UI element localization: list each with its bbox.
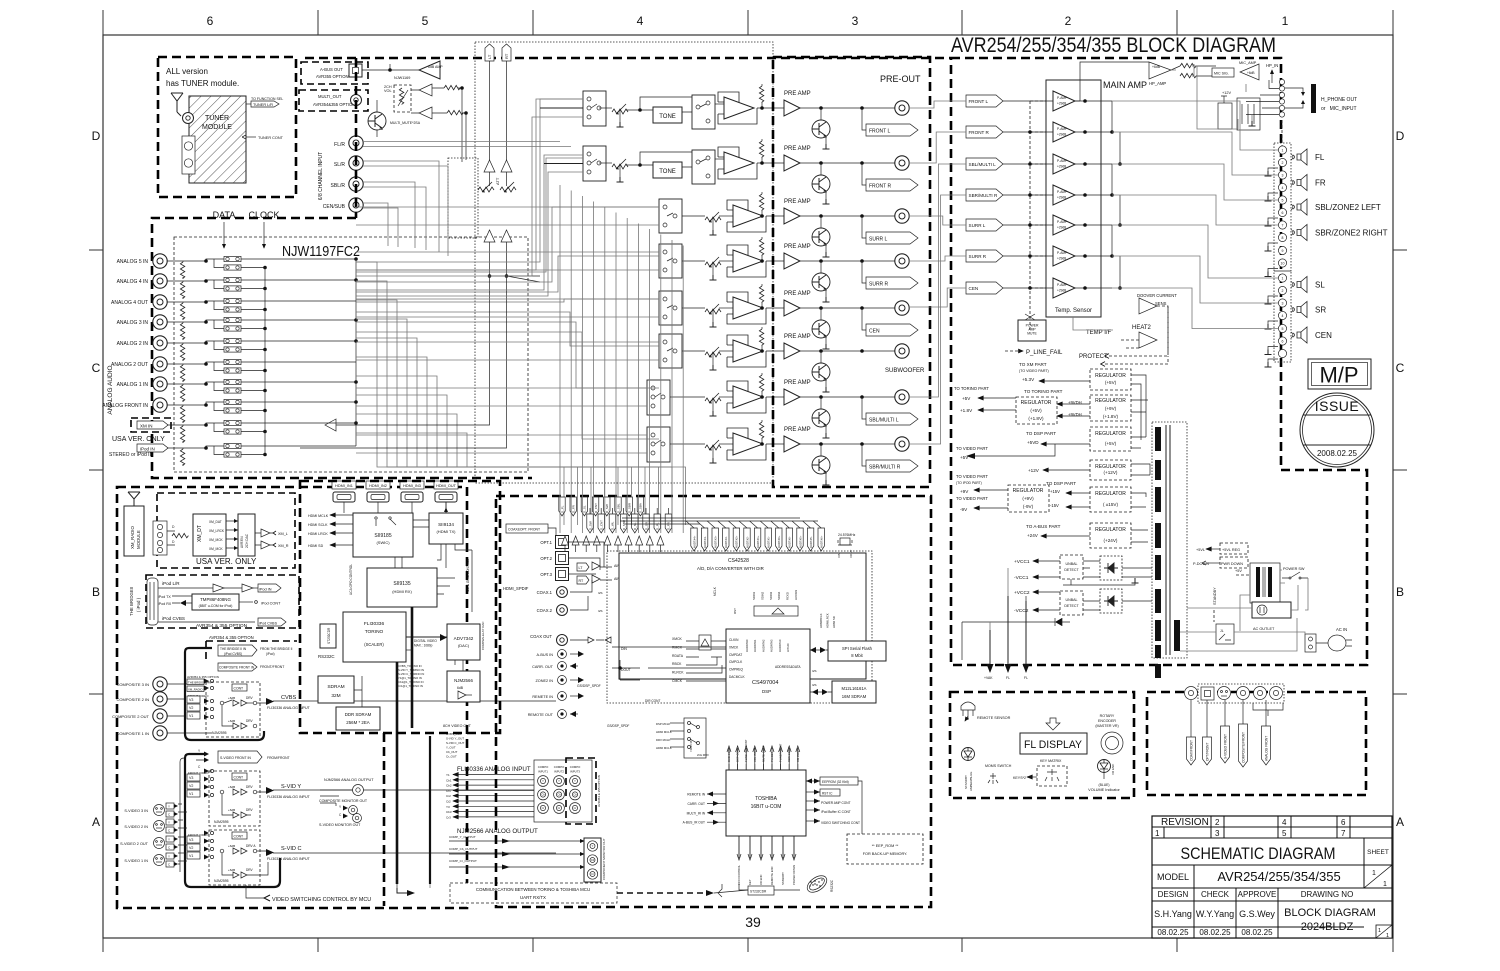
svg-text:8: 8 — [1282, 236, 1284, 240]
flag AUDT#3+ — [712, 528, 718, 551]
wire flag to amp — [1003, 100, 1053, 102]
pre-out jack SURR L — [895, 209, 909, 223]
AC OUTLET — [1252, 602, 1291, 618]
svg-text:COMP_Cr_OUTPUT: COMP_Cr_OUTPUT — [449, 859, 477, 863]
video inner divider dashed — [383, 733, 386, 906]
svg-text:HDMI_IN2: HDMI_IN2 — [369, 484, 387, 488]
svg-text:SL: SL — [1315, 281, 1325, 290]
svg-text:OPT/FRONT: OPT/FRONT — [1206, 743, 1210, 761]
flag AUDT#3- — [723, 528, 729, 551]
svg-text:CHECK: CHECK — [1201, 890, 1230, 899]
svg-text:+6dB: +6dB — [228, 785, 235, 789]
svg-text:ANALOG 1 IN: ANALOG 1 IN — [117, 382, 149, 388]
svg-text:V3: V3 — [189, 838, 193, 842]
svg-text:DRV: DRV — [246, 785, 254, 789]
wire flag to amp — [1003, 163, 1053, 165]
P-AMP CEN — [1053, 278, 1075, 298]
svg-text:(HDMI TX): (HDMI TX) — [436, 529, 456, 534]
svg-text:RDATA: RDATA — [672, 654, 684, 658]
svg-text:COAX/FRONT: COAX/FRONT — [1190, 740, 1194, 761]
svg-text:D_FR: D_FR — [667, 521, 671, 530]
svg-text:P_LINE_FAIL: P_LINE_FAIL — [1026, 350, 1063, 356]
SPI flash box — [828, 641, 886, 661]
svg-text:UNBAL: UNBAL — [1066, 598, 1078, 602]
left regulator VIDEO — [1008, 485, 1049, 512]
svg-text:Cr: Cr — [558, 806, 561, 810]
svg-text:10: 10 — [1281, 262, 1285, 266]
svg-text:Cb: Cb — [557, 793, 561, 797]
+5VL REG box — [1220, 543, 1248, 554]
svg-text:Cr1@1_TORINO IN: Cr1@1_TORINO IN — [398, 684, 423, 688]
analog inner dotted box — [174, 237, 528, 472]
svg-text:DIN: DIN — [621, 647, 627, 651]
svg-text:DRV: DRV — [246, 868, 254, 872]
svg-text:7: 7 — [1341, 829, 1346, 838]
ST232CDR bottom box — [748, 886, 774, 895]
input flag SBR/MULTI R — [966, 189, 1003, 201]
speaker FR — [1291, 175, 1307, 191]
svg-text:STANDBY: STANDBY — [1213, 587, 1217, 605]
svg-text:2CH DAC: 2CH DAC — [245, 533, 249, 548]
connector HDMI_IN2 — [366, 481, 390, 489]
svg-text:CARR. OUT: CARR. OUT — [687, 802, 705, 806]
svg-text:+1.8V: +1.8V — [960, 408, 973, 413]
regulator (+24V) — [1090, 523, 1131, 548]
ANALOG 4 OUT jack — [153, 295, 167, 309]
ANALOG 5 IN jack — [153, 254, 167, 268]
svg-text:COMP_Cb_OUTPUT: COMP_Cb_OUTPUT — [449, 847, 478, 851]
svg-text:+VCC2: +VCC2 — [1014, 590, 1030, 596]
flag D_SL — [581, 497, 587, 516]
svg-text:S-VIDEO FRONT: S-VIDEO FRONT — [1224, 734, 1228, 759]
svg-text:D_SW: D_SW — [588, 521, 592, 530]
svg-text:AUDATA0: AUDATA0 — [745, 639, 749, 652]
ATT dotted box — [448, 158, 478, 238]
SII9185 SWIC box — [353, 513, 413, 557]
regulator (+5V) — [1090, 427, 1131, 451]
svg-text:D_CNT: D_CNT — [600, 520, 604, 530]
svg-text:UCA GPO CONTROL: UCA GPO CONTROL — [349, 564, 353, 595]
svg-text:08.02.25: 08.02.25 — [1157, 928, 1189, 937]
svg-text:THE BRIDGE II IN: THE BRIDGE II IN — [220, 647, 247, 651]
svg-text:74HVC157: 74HVC157 — [689, 739, 693, 752]
thick video bus svideo — [185, 754, 280, 887]
svg-text:2CH MUX: 2CH MUX — [697, 753, 709, 757]
wire 6dB to abus — [362, 64, 419, 70]
resistor array ch10 — [180, 449, 184, 465]
svg-text:NJM2595: NJM2595 — [212, 731, 227, 735]
svg-text:D: D — [92, 129, 101, 143]
svg-text:iPod RX: iPod RX — [158, 602, 172, 606]
flag AUDT#4+ — [691, 528, 697, 551]
svg-text:A/D, D/A CONVERTER WITH DIR: A/D, D/A CONVERTER WITH DIR — [697, 566, 764, 571]
svg-text:iPod CVBS: iPod CVBS — [162, 616, 185, 621]
flag D_SR lower — [643, 514, 649, 533]
XM connector — [153, 521, 167, 555]
svg-text:NJM2595: NJM2595 — [214, 879, 229, 883]
svg-text:PRE AMP: PRE AMP — [784, 199, 811, 205]
svg-text:SBR/ZONE2 RIGHT: SBR/ZONE2 RIGHT — [1315, 229, 1388, 238]
svg-text:MODULE: MODULE — [136, 530, 141, 549]
RT flag — [502, 44, 511, 61]
flag AUDT#4- — [701, 528, 707, 551]
svg-text:THE BRIDGEII: THE BRIDGEII — [129, 587, 134, 616]
front composite — [1237, 687, 1250, 700]
svg-text:4: 4 — [1282, 186, 1284, 190]
svg-text:SII9134: SII9134 — [438, 522, 454, 527]
svg-text:C: C — [92, 361, 101, 375]
svg-text:OPT.2: OPT.2 — [540, 556, 552, 561]
svg-text:1: 1 — [1155, 829, 1160, 838]
wires amp to speakers — [1112, 101, 1278, 150]
D flag riser stubs — [589, 508, 591, 514]
tuner module hatched block — [189, 96, 246, 183]
svg-text:+6dB: +6dB — [228, 808, 235, 812]
svg-text:B: B — [1396, 585, 1404, 599]
svg-text:6: 6 — [1282, 340, 1284, 344]
svg-text:REGULATOR: REGULATOR — [1095, 398, 1126, 404]
svg-text:RT: RT — [504, 53, 509, 59]
svg-text:FLI30336 ANALOG INPUT: FLI30336 ANALOG INPUT — [267, 795, 311, 799]
svg-text:NJM2566 ANALOG OUTPUT: NJM2566 ANALOG OUTPUT — [324, 778, 374, 782]
output flag SBL/MULTI L — [862, 397, 866, 419]
transistor SBR/MULTI R — [812, 456, 830, 474]
svg-text:FRONT L: FRONT L — [869, 129, 891, 135]
jack COMPOSITE 2 OUT — [153, 709, 167, 723]
mute switch pair ch4 — [224, 317, 241, 322]
svg-text:COAX&OPT. FRONT: COAX&OPT. FRONT — [508, 528, 540, 532]
transistor CEN — [812, 320, 830, 338]
svg-text:FLI30336 ANALOG INPUT: FLI30336 ANALOG INPUT — [457, 766, 531, 773]
svg-text:or MIC_INPUT: or MIC_INPUT — [1321, 106, 1357, 112]
svg-text:(+5V): (+5V) — [1105, 441, 1117, 446]
op-amp row5 — [727, 292, 766, 324]
speaker SBL/ZONE2 LEFT — [1291, 199, 1307, 215]
VIDEO SWITCHING CONTROL BY MCU — [246, 885, 264, 898]
resistor array ch2 — [180, 282, 184, 298]
resistor feedback row6 — [759, 329, 763, 345]
flag AUDT#2- — [744, 528, 750, 551]
DDR SDRAM box — [336, 707, 380, 730]
ISSUE stamp circle — [1300, 393, 1374, 467]
wire runs select inputs — [356, 99, 583, 262]
wire bundle to DSP converters — [356, 262, 564, 525]
svg-text:SDIN2: SDIN2 — [760, 591, 764, 600]
svg-text:ENCODER: ENCODER — [1098, 719, 1116, 723]
small arrows into matrix — [204, 679, 209, 684]
wires digital — [568, 542, 604, 610]
svg-text:TO VIDEO PART: TO VIDEO PART — [956, 474, 988, 479]
mute transistor MULTI_MUTE*2SA — [368, 112, 386, 130]
digital dashed box — [496, 496, 931, 907]
svg-text:2024BLDZ: 2024BLDZ — [1301, 921, 1354, 933]
svg-text:I2C & GPIO CONTROL: I2C & GPIO CONTROL — [466, 558, 470, 592]
svg-text:DRV A: DRV A — [246, 844, 256, 848]
resistor feedback row1 — [759, 86, 763, 102]
svg-text:MOMS SWITCH: MOMS SWITCH — [985, 764, 1012, 768]
svg-text:AUDT#2+: AUDT#2+ — [735, 535, 739, 548]
jack COMPO1 Y — [538, 776, 549, 787]
svg-text:D_FL: D_FL — [560, 505, 564, 513]
svg-text:JL: JL — [1220, 629, 1224, 633]
jack S-VIDEO 2 OUT — [154, 838, 165, 849]
svg-text:MULTI_IR IN: MULTI_IR IN — [687, 811, 706, 815]
svg-text:AVR354 & 355 OPTION: AVR354 & 355 OPTION — [196, 623, 248, 629]
COAX&OPT.FRONT box — [506, 524, 548, 533]
FL/R jack — [349, 136, 363, 150]
svg-text:FOR BACK-UP MEMORY.: FOR BACK-UP MEMORY. — [863, 852, 908, 856]
svg-text:SBL/MULTI L: SBL/MULTI L — [969, 162, 997, 167]
svg-text:M12L16161A: M12L16161A — [842, 686, 867, 691]
junction dots on mute rail — [1028, 130, 1032, 134]
resistor feedback row3 — [759, 194, 763, 210]
flag D_FL — [559, 497, 565, 516]
svg-text:V2: V2 — [189, 706, 193, 710]
svg-text:Y: Y — [592, 844, 594, 848]
svg-text:Y: Y — [168, 805, 170, 809]
svg-text:RMCK: RMCK — [672, 645, 683, 649]
input flag FRONT L — [966, 95, 1003, 107]
svg-text:MUTE: MUTE — [1027, 332, 1037, 336]
NJM2566 box — [447, 671, 480, 702]
P-AMP FRONT R — [1053, 122, 1075, 142]
svg-text:XOUT: XOUT — [849, 549, 853, 558]
svg-text:TO FUNCTION SEL: TO FUNCTION SEL — [251, 97, 283, 101]
svg-text:AUDATA1: AUDATA1 — [753, 639, 757, 652]
flag D_SW lower — [587, 514, 593, 533]
S-VID C out — [257, 851, 556, 853]
svg-text:Cb2: Cb2 — [446, 784, 452, 788]
svg-text:(SWIC): (SWIC) — [376, 540, 390, 545]
op-amp row3 — [727, 200, 766, 232]
TOSHIBA uCOM box — [726, 770, 806, 836]
svg-text:SDIN3: SDIN3 — [769, 591, 773, 600]
standby LED — [962, 748, 975, 761]
svg-text:+6dB: +6dB — [228, 868, 235, 872]
flag AUDT#1- — [765, 528, 771, 551]
svg-text:1: 1 — [1378, 928, 1381, 934]
svg-text:VIDEO SWITCHING CONT: VIDEO SWITCHING CONT — [821, 821, 860, 825]
pre-out jack CEN — [895, 301, 909, 315]
wire to pre-out jack — [800, 396, 895, 398]
input buffer triangle — [325, 419, 336, 431]
flag D_PL lower — [654, 514, 660, 533]
ADV7342 DAC box — [447, 624, 480, 660]
amp triangles to pots — [419, 84, 432, 96]
svg-text:GS/DSP_SPDF: GS/DSP_SPDF — [577, 684, 601, 688]
resistor array ch4 — [180, 323, 184, 339]
FLI30336 TORINO box — [343, 612, 406, 662]
svg-text:Cb: Cb — [573, 793, 577, 797]
diode lone — [1055, 618, 1062, 626]
svg-text:16M SDRAM: 16M SDRAM — [842, 694, 867, 699]
svg-text:COMMUNICATION BETWEEN TORINO &: COMMUNICATION BETWEEN TORINO & TOSHIBA M… — [476, 887, 590, 892]
svg-text:DRAWING NO: DRAWING NO — [1301, 890, 1354, 899]
CEN/SUB jack — [349, 198, 363, 212]
wire analog ch8 — [167, 402, 356, 405]
mute switch pair ch9 — [224, 420, 241, 425]
flag D_SW — [604, 497, 610, 516]
svg-text:ADDRESS&DATA: ADDRESS&DATA — [775, 665, 801, 669]
SII9135 HDMI RX box — [367, 568, 437, 607]
svg-text:XM_RADIO: XM_RADIO — [130, 525, 135, 549]
wire amp out — [1075, 224, 1112, 226]
svg-text:3: 3 — [852, 14, 859, 28]
regulator (+12V) — [1090, 460, 1131, 480]
svg-text:2: 2 — [1215, 818, 1220, 827]
svg-text:MIC SIG.: MIC SIG. — [1214, 72, 1229, 76]
connector HDMI_OUT — [434, 481, 458, 489]
resistor feedback row5 — [759, 286, 763, 302]
wire to pre-out jack — [800, 443, 895, 445]
svg-text:+6dB: +6dB — [228, 696, 235, 700]
svg-text:1: 1 — [1282, 14, 1289, 28]
svg-text:Cr2: Cr2 — [446, 794, 451, 798]
svg-text:V1: V1 — [189, 854, 193, 858]
svg-text:ANALOG 2 IN: ANALOG 2 IN — [117, 341, 149, 347]
CS497004 DSP box — [726, 629, 810, 703]
svg-text:KEY: KEY — [748, 879, 752, 885]
svg-text:REGULATOR: REGULATOR — [1021, 400, 1052, 406]
flag D_SBR lower — [620, 514, 626, 533]
resistor feedback row2 — [759, 141, 763, 157]
svg-text:REGULATOR: REGULATOR — [1095, 431, 1126, 437]
tuner connector block — [182, 136, 195, 174]
svg-text:RS232C: RS232C — [830, 879, 834, 892]
svg-text:(HDMI RX): (HDMI RX) — [392, 589, 412, 594]
svg-text:MIC_AMP: MIC_AMP — [1239, 61, 1257, 65]
P-AMP SBR/MULTI R — [1053, 185, 1075, 205]
svg-text:VOL: VOL — [384, 89, 392, 93]
svg-text:D_FR: D_FR — [572, 504, 576, 513]
DAC return bundle — [559, 185, 561, 533]
ATT pots — [478, 182, 494, 193]
svg-text:DRV: DRV — [246, 696, 254, 700]
svg-text:AVR354 & 355 OPTION: AVR354 & 355 OPTION — [209, 635, 254, 640]
AC connector block — [1305, 634, 1316, 652]
svg-text:VOLUME Indicator: VOLUME Indicator — [1088, 788, 1120, 792]
svg-text:8 Mbit: 8 Mbit — [851, 653, 863, 658]
svg-text:AC OUTLET: AC OUTLET — [1253, 627, 1275, 631]
svg-text:( ±15V): ( ±15V) — [1103, 502, 1119, 507]
pre-out jack SUBWOOFER — [895, 344, 909, 358]
TMP86F408NG box — [192, 594, 239, 610]
XM_L XM_R — [273, 531, 276, 535]
svg-text:ANALOG 4 OUT: ANALOG 4 OUT — [111, 300, 148, 306]
svg-text:TUNER L/R: TUNER L/R — [253, 103, 273, 107]
svg-text:2: 2 — [1282, 289, 1284, 293]
front flag S-VIDEO FRONT — [1224, 700, 1226, 726]
svg-text:AUDT#4-: AUDT#4- — [703, 536, 707, 548]
svideo jack wires to Vboxes — [178, 804, 187, 864]
svg-text:V3: V3 — [189, 698, 193, 702]
bus vertical lines — [264, 268, 266, 455]
jack COMPO2 Cr — [554, 803, 565, 814]
svg-text:+VAK: +VAK — [984, 676, 993, 680]
svg-text:TO DSP PART: TO DSP PART — [1046, 481, 1076, 486]
wire to pre-out jack — [800, 215, 895, 217]
S-VIDEO FRONT IN flag — [218, 751, 262, 763]
svg-text:PRE AMP: PRE AMP — [784, 91, 811, 97]
input flag SBL/MULTI L — [966, 158, 1003, 170]
svg-text:V2: V2 — [189, 784, 193, 788]
svg-text:iPod IN: iPod IN — [140, 447, 155, 452]
svg-text:OPT.3: OPT.3 — [540, 572, 552, 577]
COAX.2 jack — [557, 605, 568, 616]
jack S-VIDEO 1 IN — [154, 855, 165, 866]
svg-text:Temp. Sensor: Temp. Sensor — [1055, 308, 1092, 314]
svg-text:POWER SW: POWER SW — [1283, 567, 1305, 571]
svg-text:RBCK: RBCK — [672, 662, 682, 666]
dotted mute rail — [1030, 101, 1046, 330]
svg-text:FLI30336 ANALOG INPUT: FLI30336 ANALOG INPUT — [267, 857, 311, 861]
svg-text:COMPOSITE 3 IN: COMPOSITE 3 IN — [117, 682, 150, 687]
svg-text:TMP86F408NG: TMP86F408NG — [200, 597, 231, 602]
ANALOG 2 IN jack — [153, 336, 167, 350]
svg-text:Y3: Y3 — [446, 805, 450, 809]
svg-text:USA VER. ONLY: USA VER. ONLY — [196, 557, 257, 566]
svg-text:ANALOG FRONT IN: ANALOG FRONT IN — [102, 403, 148, 409]
svg-text:16BIT u-COM: 16BIT u-COM — [751, 804, 782, 810]
flag D_CNT — [592, 497, 598, 516]
svg-text:+6dB: +6dB — [1247, 71, 1255, 75]
preamp dotted box — [475, 42, 773, 483]
channel row SURR R — [659, 244, 682, 278]
svg-text:FLI30336: FLI30336 — [364, 621, 385, 627]
svg-text:AUDT#3+: AUDT#3+ — [714, 535, 718, 548]
ANALOG 3 IN jack — [153, 315, 167, 329]
svg-text:TO XM PART: TO XM PART — [1019, 362, 1047, 367]
flag D_SBL — [615, 497, 621, 516]
NJW1169 dashed box with pot — [394, 85, 411, 112]
svg-text:SDIN4: SDIN4 — [777, 591, 781, 600]
svg-text:SBR/MULTI R: SBR/MULTI R — [969, 193, 998, 198]
svg-text:FL: FL — [1024, 676, 1028, 680]
svg-text:DOUT: DOUT — [621, 668, 631, 672]
svg-text:7: 7 — [1282, 224, 1284, 228]
svg-text:Cb: Cb — [591, 858, 595, 862]
svg-text:LT: LT — [487, 54, 492, 59]
wire analog ch10 — [167, 446, 356, 448]
svg-text:COMPO: COMPO — [538, 765, 549, 769]
wire 6/8 jacks to select — [363, 142, 571, 147]
svg-text:COMPOSITE MONITOR OUT: COMPOSITE MONITOR OUT — [319, 799, 368, 803]
jack COMPO3 Y — [570, 776, 581, 787]
NJM2595 box composite — [206, 682, 260, 737]
svg-text:(+9V): (+9V) — [1022, 496, 1034, 501]
svg-text:AVR355 OPTION: AVR355 OPTION — [316, 74, 349, 79]
resistor array ch3 — [180, 303, 184, 319]
svg-text:1: 1 — [1282, 277, 1284, 281]
svg-text:USA VER. ONLY: USA VER. ONLY — [112, 436, 165, 443]
pre-out jack FRONT L — [895, 101, 909, 115]
op-amp row7 — [727, 381, 766, 413]
op-amp row1 — [718, 92, 757, 124]
svg-text:S-VID Y_OUT: S-VID Y_OUT — [446, 737, 464, 741]
svg-text:+VCC1: +VCC1 — [1014, 559, 1030, 565]
op-amp row2 — [718, 147, 757, 179]
svg-text:PRE AMP: PRE AMP — [784, 244, 811, 250]
svg-text:6dB: 6dB — [457, 686, 464, 690]
channel row CEN — [659, 291, 682, 325]
svg-text:FRONT R: FRONT R — [969, 130, 990, 135]
svg-text:AVR254/255/354/355: AVR254/255/354/355 — [1217, 869, 1340, 884]
svg-text:+6dB: +6dB — [1152, 65, 1161, 69]
svg-text:OPT.1: OPT.1 — [540, 540, 552, 545]
svg-text:+5VD: +5VD — [1027, 440, 1039, 445]
input flag SURR R — [966, 250, 1003, 262]
svg-text:ADV7342: ADV7342 — [454, 636, 474, 641]
